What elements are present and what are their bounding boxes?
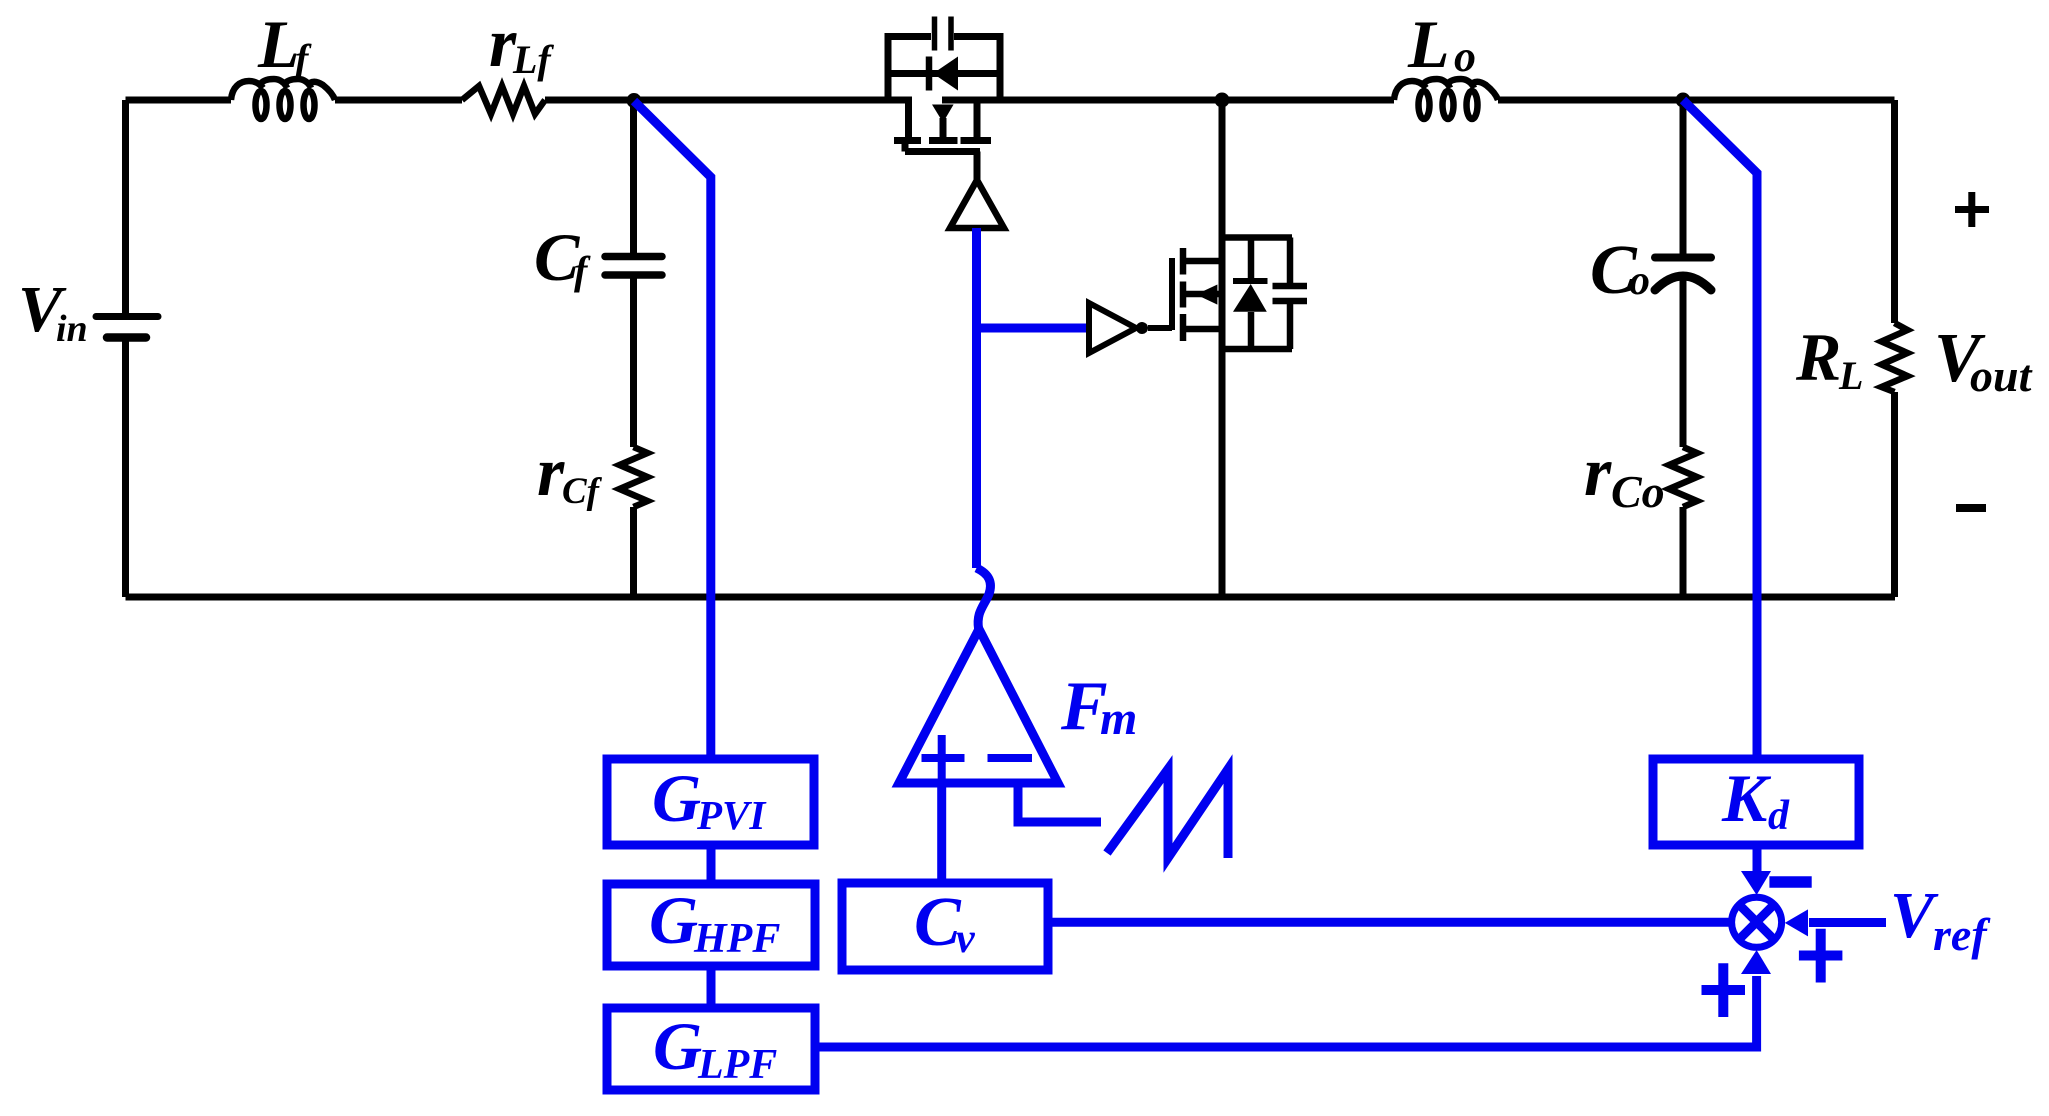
Q2 drain bar	[1185, 258, 1222, 265]
wire right vertical top	[1891, 100, 1898, 323]
wire Cv to summer	[1048, 918, 1732, 927]
comparator Fm triangle	[899, 629, 1058, 783]
wire Lf to rLf	[335, 97, 462, 104]
capacitor Cf	[605, 257, 662, 276]
wire Cf to rCf	[630, 278, 637, 447]
Q1 channel bars	[894, 137, 991, 144]
capacitor Co plate bottom (curved)	[1655, 276, 1711, 290]
Q2 top connector	[1222, 234, 1292, 241]
diode across Q1 cathode bar	[926, 57, 933, 91]
wire node C to Kd	[1683, 100, 1757, 759]
inverter output bubble	[1136, 322, 1148, 334]
arrowhead Vref into summer	[1785, 909, 1808, 936]
svg-text:G: G	[653, 1008, 702, 1084]
wire right vertical bottom	[1891, 392, 1898, 597]
svg-text:r: r	[537, 434, 565, 511]
sawtooth ramp symbol	[1107, 769, 1228, 858]
inverter for Q2 gate	[1089, 303, 1136, 353]
minus sign at summer	[1769, 876, 1811, 888]
transistor Q2 (sync MOSFET)	[1148, 100, 1307, 597]
resistor RL	[1882, 323, 1908, 392]
diode across Q1 wire	[891, 70, 997, 77]
body diode lead bottom	[1248, 312, 1255, 349]
diode across Q1 triangle	[933, 57, 958, 91]
battery Vin	[96, 317, 158, 338]
wire Lo to output node	[1498, 97, 1895, 104]
svg-text:R: R	[1795, 319, 1841, 395]
node C (output node)	[1676, 93, 1691, 108]
svg-text:HPF: HPF	[693, 916, 780, 962]
svg-text:in: in	[56, 308, 88, 350]
resistor rCo	[1669, 447, 1697, 507]
Q1 body lead stem	[940, 118, 947, 140]
node B (switch node)	[1215, 93, 1230, 108]
svg-text:V: V	[1890, 879, 1939, 952]
Fm plus sign	[922, 735, 965, 781]
svg-text:out: out	[1970, 350, 2033, 401]
wire rLf to Q1	[545, 97, 912, 104]
svg-text:f: f	[574, 248, 591, 293]
capacitor across Q2 lead top	[1287, 238, 1294, 287]
wire GLPF to summer	[815, 976, 1757, 1047]
svg-text:G: G	[652, 760, 701, 836]
wire Fm minus lead to ramp	[1018, 783, 1101, 822]
svg-text:L: L	[257, 6, 300, 82]
resistor rCf	[620, 447, 648, 507]
wire bottom rail	[126, 594, 1896, 601]
label output minus	[1956, 504, 1986, 512]
body diode triangle	[1233, 284, 1267, 312]
Q1 gate lead	[974, 152, 981, 182]
svg-text:C: C	[914, 884, 962, 961]
svg-text:Cf: Cf	[562, 471, 603, 512]
capacitor across Q2 lead bottom	[1287, 301, 1294, 349]
capacitor Co plate top	[1655, 254, 1711, 262]
Q2 channel bars	[1180, 248, 1187, 341]
block Kd	[1653, 759, 1859, 845]
svg-text:Co: Co	[1611, 466, 1665, 517]
wire crossover hop at bottom rail	[977, 568, 991, 629]
transistor Q1 (high-side MOSFET)	[888, 17, 1000, 182]
svg-text:r: r	[1584, 434, 1612, 511]
Q2 body bar	[1185, 291, 1222, 298]
svg-text:K: K	[1721, 760, 1772, 836]
svg-text:o: o	[1454, 32, 1476, 81]
wire Cf top	[630, 100, 637, 253]
Q2 gate bar	[1169, 258, 1175, 330]
wire rCf to bottom rail	[630, 507, 637, 597]
inductor Lo	[1394, 79, 1498, 100]
capacitor across Q2 plates	[1273, 286, 1308, 301]
block GPVI	[607, 759, 814, 845]
inductor Lf	[231, 79, 335, 100]
wire Co top	[1680, 100, 1687, 254]
svg-text:Lf: Lf	[512, 37, 554, 82]
node A (filter node)	[627, 93, 642, 108]
svg-text:f: f	[295, 36, 312, 81]
svg-text:o: o	[1629, 258, 1650, 304]
summing junction circle	[1732, 897, 1782, 947]
Q1 snubber left vertical	[888, 37, 931, 101]
summing junction X	[1741, 907, 1772, 938]
wire GPVI to GHPF	[707, 845, 716, 884]
Q2 bottom connector	[1222, 346, 1292, 353]
wire branch to inverter	[977, 324, 1087, 333]
svg-text:LPF: LPF	[697, 1042, 777, 1088]
wire top rail right of Q1	[942, 97, 1394, 104]
Q1 drain lead	[974, 100, 981, 140]
Q1 snubber right vertical	[954, 37, 1000, 101]
wire Co to rCo	[1680, 277, 1687, 447]
block Cv	[842, 883, 1048, 970]
Q1 gate bar	[905, 143, 980, 152]
gate driver buffer for Q1	[950, 180, 1004, 228]
wire Vref input	[1809, 918, 1886, 927]
plus sign bottom at summer	[1702, 963, 1746, 1017]
arrowhead Kd into summer	[1741, 871, 1771, 895]
wire driver input vertical	[972, 228, 981, 568]
svg-text:L: L	[1838, 353, 1863, 398]
wire left vertical (Vin top)	[122, 100, 129, 313]
svg-text:G: G	[649, 882, 698, 958]
Q2 body arrow (points left)	[1196, 285, 1217, 305]
Fm minus sign	[988, 754, 1033, 762]
resistor rLf	[462, 86, 545, 114]
label output plus	[1955, 192, 1989, 227]
Q2 gate wire	[1148, 325, 1172, 331]
wire Kd to summer	[1753, 845, 1762, 873]
Q2 source bar	[1185, 326, 1222, 333]
wire top rail left segment	[126, 97, 232, 104]
capacitor across Q1	[935, 17, 952, 51]
arrowhead feedback into summer	[1741, 950, 1771, 974]
svg-text:d: d	[1768, 793, 1790, 839]
wire GHPF to GLPF	[707, 966, 716, 1008]
svg-text:ref: ref	[1933, 909, 1991, 960]
svg-text:m: m	[1100, 692, 1137, 745]
body diode lead top	[1248, 238, 1255, 282]
wire Fm plus input to Cv	[937, 783, 946, 880]
block GLPF	[607, 1008, 815, 1090]
block GHPF	[607, 884, 815, 966]
svg-text:PVI: PVI	[696, 792, 767, 838]
wire rCo to bottom rail	[1680, 507, 1687, 597]
body diode cathode bar	[1233, 278, 1268, 284]
wire left vertical (Vin bottom)	[122, 341, 129, 597]
Q1 body arrow (points down)	[932, 105, 954, 123]
svg-text:v: v	[956, 916, 976, 962]
wire node A to GPVI	[634, 101, 711, 759]
plus sign right at summer	[1799, 929, 1843, 983]
Q1 source lead	[905, 100, 912, 137]
Q2 drain-source vertical	[1219, 100, 1226, 597]
svg-text:L: L	[1407, 6, 1450, 82]
